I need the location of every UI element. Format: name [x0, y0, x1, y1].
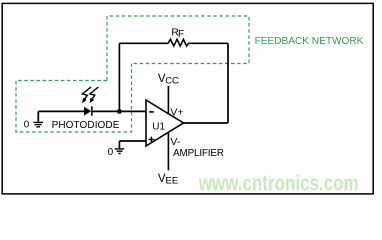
- plus input symbol: [149, 139, 155, 141]
- svg-text:U1: U1: [152, 122, 165, 133]
- minus input symbol: [149, 111, 154, 113]
- node: junction dot: [117, 109, 122, 114]
- svg-text:AMPLIFIER: AMPLIFIER: [173, 148, 224, 159]
- label RF: [171, 28, 184, 41]
- svg-text:www.cntronics.com: www.cntronics.com: [198, 170, 359, 195]
- label VCC: [158, 73, 179, 87]
- label VEE: [158, 173, 178, 187]
- svg-text:PHOTODIODE: PHOTODIODE: [52, 120, 120, 131]
- op-amp U1: [146, 100, 184, 146]
- wire: op-amp output: [184, 122, 229, 124]
- photodiode: [84, 106, 92, 116]
- wire: top feedback left segment: [119, 42, 168, 44]
- svg-text:V+: V+: [170, 106, 183, 118]
- wire: photodiode cathode to op-amp inverting input: [92, 110, 147, 112]
- svg-text:EE: EE: [166, 176, 179, 187]
- feedback network dashed outline: [107, 16, 249, 81]
- wire: ground to photodiode anode: [38, 110, 84, 112]
- light arrow 1: [82, 87, 91, 103]
- svg-text:0: 0: [108, 147, 114, 158]
- wire: feedback right vertical: [227, 43, 229, 123]
- ground 1 (left): [33, 111, 43, 126]
- ground 2 (non-inverting input): [115, 141, 124, 154]
- resistor RF: [168, 39, 188, 46]
- wire: plus input: [119, 140, 146, 142]
- wire: top feedback right segment: [188, 42, 228, 44]
- svg-text:CC: CC: [165, 76, 179, 87]
- light arrow 2: [90, 87, 99, 103]
- pin VCC line: [167, 86, 169, 115]
- wire: feedback left vertical: [118, 43, 120, 111]
- svg-text:V-: V-: [170, 136, 180, 148]
- svg-text:F: F: [178, 29, 184, 40]
- pin VEE line: [167, 132, 169, 170]
- svg-text:FEEDBACK NETWORK: FEEDBACK NETWORK: [255, 36, 364, 47]
- svg-text:0: 0: [24, 120, 30, 131]
- photodiode dashed outline: [16, 64, 132, 133]
